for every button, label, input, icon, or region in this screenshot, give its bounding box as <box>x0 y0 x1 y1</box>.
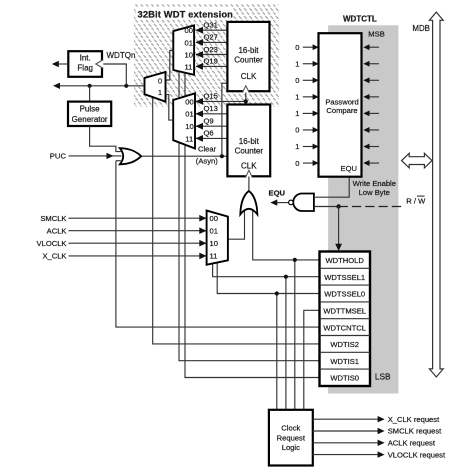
svg-text:Q19: Q19 <box>204 57 218 66</box>
svg-text:32Bit WDT extension: 32Bit WDT extension <box>138 9 234 20</box>
svg-text:WDTSSEL0: WDTSSEL0 <box>324 290 365 299</box>
svg-text:Pulse: Pulse <box>80 105 101 114</box>
svg-text:Clear: Clear <box>198 145 217 154</box>
svg-text:WDTCNTCL: WDTCNTCL <box>323 323 366 332</box>
svg-text:11: 11 <box>210 252 218 261</box>
svg-text:11: 11 <box>185 62 193 71</box>
svg-text:WDTSSEL1: WDTSSEL1 <box>324 273 365 282</box>
svg-text:Q6: Q6 <box>204 129 214 138</box>
svg-text:SMCLK request: SMCLK request <box>388 427 442 436</box>
svg-text:0: 0 <box>295 126 299 135</box>
svg-text:Counter: Counter <box>235 146 264 155</box>
svg-text:VLOCLK request: VLOCLK request <box>388 450 446 459</box>
svg-text:Generator: Generator <box>72 115 108 124</box>
svg-text:LSB: LSB <box>375 371 391 381</box>
svg-text:Q9: Q9 <box>204 116 214 125</box>
svg-text:WDTIS1: WDTIS1 <box>330 357 359 366</box>
svg-text:EQU: EQU <box>341 164 357 173</box>
svg-text:Q15: Q15 <box>204 92 218 101</box>
svg-text:16-bit: 16-bit <box>238 46 259 55</box>
svg-text:Q31: Q31 <box>204 21 218 30</box>
svg-text:VLOCLK: VLOCLK <box>37 239 67 248</box>
svg-text:CLK: CLK <box>241 72 257 81</box>
svg-text:WDTIS2: WDTIS2 <box>330 340 359 349</box>
svg-text:WDTIS0: WDTIS0 <box>330 374 359 383</box>
svg-text:WDTTMSEL: WDTTMSEL <box>323 307 366 316</box>
svg-text:(Asyn): (Asyn) <box>196 156 218 165</box>
svg-text:WDTCTL: WDTCTL <box>343 14 377 23</box>
svg-text:16-bit: 16-bit <box>239 137 260 146</box>
svg-text:1: 1 <box>295 109 299 118</box>
svg-text:Request: Request <box>277 433 306 442</box>
svg-text:0: 0 <box>295 159 299 168</box>
svg-text:X_CLK request: X_CLK request <box>388 415 440 424</box>
svg-text:Compare: Compare <box>326 106 357 115</box>
svg-text:MSB: MSB <box>368 29 384 38</box>
svg-text:11: 11 <box>185 134 193 143</box>
svg-text:01: 01 <box>185 38 193 47</box>
svg-text:00: 00 <box>185 26 193 35</box>
svg-text:Low Byte: Low Byte <box>359 188 390 197</box>
svg-text:ACLK request: ACLK request <box>388 439 436 448</box>
svg-text:0: 0 <box>295 76 299 85</box>
svg-text:Q23: Q23 <box>204 45 218 54</box>
svg-text:CLK: CLK <box>241 161 257 170</box>
svg-text:Q13: Q13 <box>204 104 218 113</box>
svg-text:01: 01 <box>185 110 193 119</box>
svg-text:1: 1 <box>158 88 162 97</box>
svg-text:WDTQn: WDTQn <box>107 51 136 60</box>
svg-text:Int.: Int. <box>80 54 91 63</box>
svg-text:00: 00 <box>210 214 218 223</box>
svg-text:Counter: Counter <box>234 56 263 65</box>
svg-text:10: 10 <box>210 239 218 248</box>
svg-text:1: 1 <box>295 59 299 68</box>
svg-text:Flag: Flag <box>77 63 93 72</box>
svg-text:Clock: Clock <box>281 424 300 433</box>
svg-text:X_CLK: X_CLK <box>42 252 66 261</box>
svg-text:PUC: PUC <box>50 151 67 160</box>
svg-text:Q27: Q27 <box>204 33 218 42</box>
svg-text:0: 0 <box>295 43 299 52</box>
svg-text:R / W: R / W <box>406 196 426 205</box>
svg-text:Logic: Logic <box>282 443 300 452</box>
svg-text:1: 1 <box>295 93 299 102</box>
svg-text:01: 01 <box>210 226 218 235</box>
svg-text:EQU: EQU <box>269 188 286 197</box>
svg-text:0: 0 <box>158 77 162 86</box>
svg-text:00: 00 <box>185 97 193 106</box>
svg-text:10: 10 <box>185 50 193 59</box>
svg-text:10: 10 <box>185 122 193 131</box>
svg-text:SMCLK: SMCLK <box>40 214 66 223</box>
svg-text:1: 1 <box>295 142 299 151</box>
svg-text:WDTHOLD: WDTHOLD <box>326 256 365 265</box>
svg-text:MDB: MDB <box>412 24 430 33</box>
svg-text:Write Enable: Write Enable <box>353 179 396 188</box>
svg-text:ACLK: ACLK <box>47 226 67 235</box>
